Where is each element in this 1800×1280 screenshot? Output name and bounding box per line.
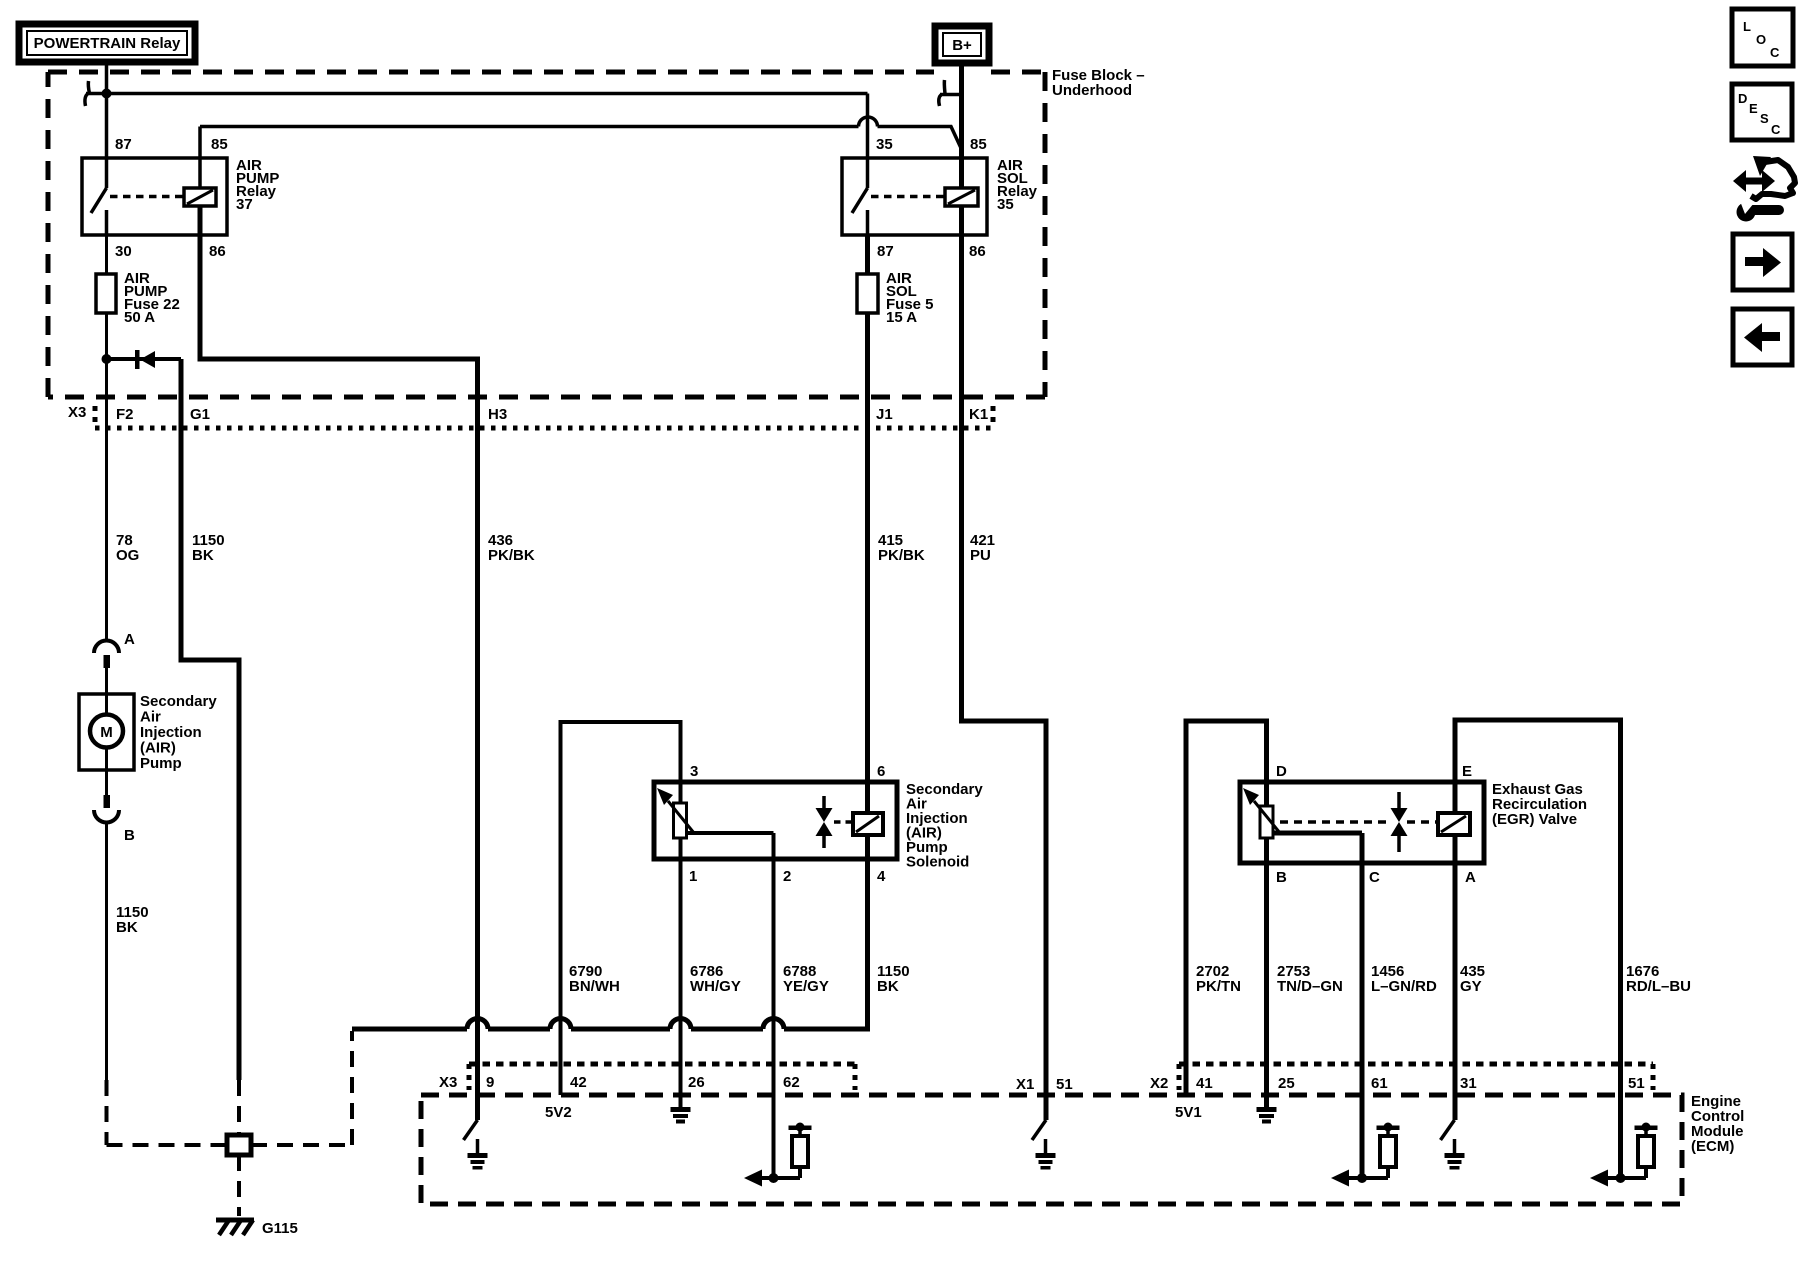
EGR valve link dashes [1280, 820, 1438, 824]
ECM dashed box [421, 1095, 1682, 1204]
connector X3 fuse block pin labels [68, 404, 988, 423]
svg-text:Injection: Injection [140, 724, 202, 741]
wire pump ground dashed to G115 junction [107, 1080, 228, 1145]
wire powertrain relay output (vertical into relay 37 pin 87) [105, 64, 109, 188]
svg-text:86: 86 [209, 243, 226, 260]
wire solenoid pin1 sensor ground 6786 WH/GY [679, 782, 683, 1108]
wire label 435 GY [1460, 963, 1485, 995]
svg-text:9: 9 [486, 1074, 494, 1091]
wire label 436 PK/BK [488, 532, 535, 564]
svg-text:25: 25 [1278, 1075, 1295, 1092]
fuse F5 (AIR SOL Fuse 5) [857, 274, 878, 313]
svg-text:41: 41 [1196, 1075, 1213, 1092]
EGR coil [1438, 813, 1470, 835]
svg-text:3: 3 [690, 763, 698, 780]
relay K37 coil [184, 188, 216, 206]
svg-text:15 A: 15 A [886, 309, 917, 326]
wire powertrain bus to relay 35 pin 35 [86, 94, 868, 189]
svg-text:BK: BK [877, 978, 899, 995]
svg-text:GY: GY [1460, 978, 1482, 995]
svg-text:H3: H3 [488, 406, 507, 423]
svg-text:POWERTRAIN Relay: POWERTRAIN Relay [34, 35, 181, 52]
svg-text:F2: F2 [116, 406, 134, 423]
solenoid valve symbol [816, 796, 833, 848]
ground bus 1150 BK with hops [352, 1027, 870, 1032]
wire G115 junction down to ground [237, 1155, 241, 1216]
connector X3 fuse block dotted line [95, 406, 993, 428]
svg-text:51: 51 [1056, 1076, 1073, 1093]
svg-text:35: 35 [876, 136, 893, 153]
svg-text:PK/BK: PK/BK [488, 547, 535, 564]
wire hop over 6788 wire [763, 1019, 784, 1030]
solenoid position sensor element [674, 803, 687, 838]
svg-text:37: 37 [236, 196, 253, 213]
wire EGR wiper pin C 1456 L-GN/RD [1273, 833, 1362, 1178]
svg-text:26: 26 [688, 1074, 705, 1091]
svg-text:31: 31 [1460, 1075, 1477, 1092]
svg-text:S: S [1760, 111, 1769, 126]
fuse F22 (AIR PUMP Fuse 22) [96, 274, 116, 313]
wire relay37 coil feed from B+ (with hop over pin35 wire) [200, 127, 961, 189]
connector X3 ECM pin labels [439, 1074, 800, 1091]
wire hop over 6786 wire [670, 1019, 691, 1030]
svg-text:D: D [1276, 763, 1287, 780]
wire label 78 OG [116, 532, 139, 564]
svg-text:PU: PU [970, 547, 991, 564]
connector B below pump [94, 795, 135, 844]
wire solenoid pin6 to pin4 through coil [865, 782, 870, 1029]
connector A on pump feed [94, 631, 135, 668]
relay K35 box [842, 158, 987, 235]
wire relay37 pin30 down through fuse F22 to F2 and 78 OG [105, 235, 108, 642]
svg-text:X3: X3 [68, 404, 86, 421]
svg-text:Solenoid: Solenoid [906, 854, 969, 871]
label AIR PUMP Fuse 22 50 A [124, 270, 180, 326]
wire EGR pin D to pin B sensor 2753 TN/D-GN [1264, 782, 1269, 1108]
wire 2702 PK/TN 5V1 feed to EGR pin D [1186, 721, 1267, 1095]
relay K35 coil [945, 188, 978, 206]
svg-text:L: L [1743, 19, 1751, 34]
junction dot at fuse splice [102, 354, 112, 364]
inline connector on powertrain bus [85, 81, 90, 106]
svg-text:6: 6 [877, 763, 885, 780]
diode branch wire [107, 357, 182, 361]
wire EGR pin A 435 GY [1453, 835, 1458, 1120]
solenoid pin labels 3 6 1 2 4 [689, 763, 886, 885]
wire label 1456 L-GN/RD [1371, 963, 1437, 995]
svg-text:42: 42 [570, 1074, 587, 1091]
EGR sensor wiper arrow [1243, 788, 1280, 833]
icon diagnostic arrows and wrench [1733, 156, 1795, 222]
relay K37 coil link dashes [110, 195, 184, 199]
svg-text:B: B [124, 827, 135, 844]
relay K37 pin labels 87 85 30 86 [115, 136, 228, 260]
relay K37 switch blade [91, 188, 107, 235]
EGR position sensor element [1260, 806, 1273, 838]
wire label 2702 PK/TN [1196, 963, 1241, 995]
svg-text:87: 87 [877, 243, 894, 260]
wire label 415 PK/BK [878, 532, 925, 564]
svg-text:(AIR): (AIR) [140, 740, 176, 757]
relay K35 switch blade [852, 188, 868, 235]
svg-text:A: A [1465, 869, 1476, 886]
wire label 2753 TN/D-GN [1277, 963, 1343, 995]
relay K35 coil link dashes [871, 195, 945, 199]
svg-text:50 A: 50 A [124, 309, 155, 326]
label box POWERTRAIN Relay [19, 24, 195, 62]
wire label 6786 WH/GY [690, 963, 741, 995]
svg-text:87: 87 [115, 136, 132, 153]
label Secondary Air Injection (AIR) Pump [140, 693, 217, 772]
ECM pin 25 ground [1257, 1095, 1277, 1124]
svg-text:C: C [1369, 869, 1380, 886]
wire pump feed between connector A and pump [105, 668, 108, 795]
relay K35 pin 87 wire down J1 as 415 PK/BK to solenoid pin 6 and pin 4 [865, 235, 870, 1029]
wire label 1150 BK solenoid [877, 963, 910, 995]
svg-text:5V1: 5V1 [1175, 1104, 1202, 1121]
inline connector on B+ wire [939, 80, 959, 106]
svg-text:TN/D–GN: TN/D–GN [1277, 978, 1343, 995]
wire label 6790 BN/WH [569, 963, 620, 995]
svg-text:Pump: Pump [140, 755, 182, 772]
EGR pin labels D E B C A [1276, 763, 1476, 886]
icon DESC [1732, 84, 1792, 140]
wire hop over 436 wire [467, 1019, 488, 1030]
solenoid sensor wiper arrow [657, 788, 694, 833]
icon right arrow [1733, 234, 1792, 290]
ECM pin 31 switch to ground [1441, 1120, 1465, 1170]
svg-text:61: 61 [1371, 1075, 1388, 1092]
svg-text:J1: J1 [876, 406, 893, 423]
svg-text:B+: B+ [952, 37, 972, 54]
EGR valve symbol [1391, 792, 1408, 852]
svg-text:D: D [1738, 91, 1747, 106]
svg-text:E: E [1462, 763, 1472, 780]
solenoid valve link dashes [834, 820, 853, 824]
ECM X2-51 pull-up resistor and signal arrow [1590, 1123, 1658, 1187]
relay K35 pin labels 35 85 87 86 [876, 136, 987, 260]
svg-text:X1: X1 [1016, 1076, 1034, 1093]
svg-text:WH/GY: WH/GY [690, 978, 741, 995]
label AIR SOL Fuse 5 15 A [886, 270, 934, 326]
wire B+ feed down through relay 35 coil, K1, 421 PU to ECM X1-51 [962, 63, 1047, 1120]
svg-text:X2: X2 [1150, 1075, 1168, 1092]
AIR pump motor circle [90, 715, 123, 748]
label AIR PUMP Relay 37 [236, 157, 279, 213]
diode (flyback) [135, 350, 155, 369]
label Fuse Block Underhood [1052, 67, 1145, 99]
wire G115 junction to ground bus riser [251, 1031, 352, 1145]
svg-text:G1: G1 [190, 406, 210, 423]
label Secondary Air Injection (AIR) Pump Solenoid [906, 781, 983, 871]
svg-text:X3: X3 [439, 1074, 457, 1091]
G115 junction square [227, 1135, 251, 1155]
chassis ground G115 [216, 1220, 298, 1237]
svg-text:5V2: 5V2 [545, 1104, 572, 1121]
svg-text:85: 85 [211, 136, 228, 153]
svg-text:E: E [1749, 101, 1758, 116]
svg-text:35: 35 [997, 196, 1014, 213]
svg-text:C: C [1770, 45, 1780, 60]
ECM pin 62 pull-up resistor and signal arrow [744, 1123, 812, 1187]
svg-text:PK/TN: PK/TN [1196, 978, 1241, 995]
terminal B+ [935, 26, 989, 63]
wire EGR pin E feed 1676 RD/L-BU [1455, 720, 1621, 1178]
wire label 421 PU [970, 532, 995, 564]
wire G1 ground dashed to G115 junction [237, 1080, 241, 1135]
connector X3 ECM dotted line [469, 1064, 855, 1090]
svg-text:BK: BK [116, 919, 138, 936]
fuse block underhood dashed box [48, 72, 1045, 397]
svg-text:Underhood: Underhood [1052, 82, 1132, 99]
svg-text:86: 86 [969, 243, 986, 260]
relay K37 box [82, 158, 227, 235]
icon left arrow [1733, 309, 1792, 365]
ECM pin 61 pull-up resistor and signal arrow [1331, 1123, 1400, 1187]
svg-text:RD/L–BU: RD/L–BU [1626, 978, 1691, 995]
svg-text:Air: Air [140, 709, 161, 726]
ECM X1-51 switch to ground [1032, 1120, 1056, 1170]
solenoid coil [853, 813, 883, 835]
wire solenoid pin2 wiper signal 6788 YE/GY [687, 833, 774, 1178]
wire G1 1150 BK from diode down to G115 area [181, 359, 239, 1080]
svg-text:C: C [1771, 122, 1781, 137]
svg-text:O: O [1756, 32, 1766, 47]
svg-text:K1: K1 [969, 406, 988, 423]
svg-text:2: 2 [783, 868, 791, 885]
svg-text:85: 85 [970, 136, 987, 153]
connector X2 pin labels [1150, 1075, 1645, 1092]
connector X2 dotted line [1179, 1064, 1653, 1090]
svg-text:PK/BK: PK/BK [878, 547, 925, 564]
wire hop over 6790 wire [550, 1019, 571, 1030]
wire 6790 BN/WH 5V2 feed to solenoid pin 3 [561, 722, 681, 1095]
svg-text:G115: G115 [262, 1220, 298, 1237]
svg-text:(EGR) Valve: (EGR) Valve [1492, 811, 1577, 828]
AIR pump solenoid box [654, 782, 897, 859]
wire pump ground 1150 BK solid part [105, 822, 108, 1080]
svg-text:L–GN/RD: L–GN/RD [1371, 978, 1437, 995]
svg-text:(ECM): (ECM) [1691, 1138, 1734, 1155]
EGR valve box [1240, 782, 1484, 863]
svg-text:4: 4 [877, 868, 886, 885]
svg-text:OG: OG [116, 547, 139, 564]
svg-text:BK: BK [192, 547, 214, 564]
wire label 6788 YE/GY [783, 963, 829, 995]
AIR pump box [79, 694, 134, 770]
svg-text:51: 51 [1628, 1075, 1645, 1092]
junction dot powertrain bus [102, 89, 112, 99]
svg-text:1: 1 [689, 868, 697, 885]
ECM pin 26 ground [671, 1095, 691, 1124]
wire label 1150 BK pump ground [116, 904, 149, 936]
svg-text:62: 62 [783, 1074, 800, 1091]
ECM pin 9 switch to ground [464, 1120, 488, 1170]
svg-text:B: B [1276, 869, 1287, 886]
relay K37 pin 86 wire to H3 and down as 436 PK/BK [200, 206, 478, 1120]
wire label 1150 BK [192, 532, 225, 564]
label Engine Control Module (ECM) [1691, 1093, 1744, 1155]
connector X1 labels [1016, 1076, 1073, 1093]
svg-text:YE/GY: YE/GY [783, 978, 829, 995]
svg-text:BN/WH: BN/WH [569, 978, 620, 995]
label AIR SOL Relay 35 [997, 157, 1038, 213]
wire label 1676 RD/L-BU [1626, 963, 1691, 995]
icon LOC [1732, 9, 1793, 66]
label Exhaust Gas Recirculation (EGR) Valve [1492, 781, 1587, 828]
svg-text:30: 30 [115, 243, 132, 260]
wire hop on coil feed over pin35 wire [859, 117, 878, 127]
svg-text:A: A [124, 631, 135, 648]
svg-text:M: M [100, 724, 113, 741]
svg-text:Secondary: Secondary [140, 693, 217, 710]
